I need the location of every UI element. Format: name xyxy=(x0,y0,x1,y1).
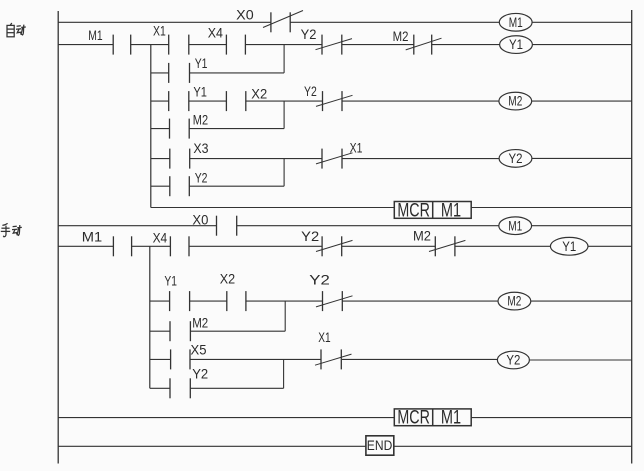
wire xyxy=(189,44,226,46)
wire xyxy=(290,21,499,23)
contact X3 xyxy=(170,149,190,169)
svg-text:M2: M2 xyxy=(508,94,522,109)
svg-text:X0: X0 xyxy=(192,213,208,228)
coil Y2 xyxy=(499,150,532,168)
wire xyxy=(342,44,414,46)
svg-text:M2: M2 xyxy=(413,228,431,243)
wire xyxy=(532,100,632,102)
coil M2_h xyxy=(498,292,531,310)
wire xyxy=(245,44,322,46)
wire xyxy=(588,245,632,247)
svg-text:X0: X0 xyxy=(236,7,254,22)
svg-text:Y1: Y1 xyxy=(193,85,207,100)
contact Y1_c xyxy=(169,91,189,111)
wire (Y2 branch rejoin) xyxy=(283,159,285,187)
svg-text:Y1: Y1 xyxy=(509,37,523,52)
wire (M2 branch stub) xyxy=(151,128,170,130)
contact Y2_b (NC) xyxy=(316,35,353,55)
contact Y2_h (NC) xyxy=(316,291,353,311)
wire xyxy=(58,21,271,23)
contact X2_h xyxy=(227,291,246,311)
wire xyxy=(531,300,632,302)
wire (Y2 branch stub) xyxy=(151,185,170,187)
coil M1_f xyxy=(499,217,532,235)
svg-text:X5: X5 xyxy=(191,342,207,357)
svg-text:Y2: Y2 xyxy=(509,151,523,166)
wire xyxy=(532,21,632,23)
wire xyxy=(532,225,632,227)
wire (Y2 branch stub, sec 2) xyxy=(150,387,170,389)
svg-text:Y2: Y2 xyxy=(301,229,319,244)
contact M2_b (NC) xyxy=(406,35,442,55)
wire (X5 rung stub) xyxy=(150,358,171,360)
svg-text:M2: M2 xyxy=(193,113,208,128)
svg-text:X1: X1 xyxy=(153,24,166,39)
END box xyxy=(366,436,394,455)
svg-text:M1: M1 xyxy=(88,28,102,43)
wire (MCR rung out) xyxy=(471,207,632,209)
wire xyxy=(237,225,499,227)
branch rail (section 2) xyxy=(149,246,151,388)
svg-text:Y2: Y2 xyxy=(304,84,317,99)
svg-text:M2: M2 xyxy=(507,294,521,309)
wire (Y2 branch, sec 2) xyxy=(190,387,283,389)
wire xyxy=(132,245,171,247)
svg-text:MCR: MCR xyxy=(397,200,430,221)
wire (M2 branch) xyxy=(189,128,284,130)
svg-text:X1: X1 xyxy=(350,141,363,156)
svg-text:X4: X4 xyxy=(153,230,168,245)
wire xyxy=(246,300,323,302)
wire xyxy=(131,44,169,46)
wire (M2 branch rejoin, sec 2) xyxy=(284,301,286,331)
contact X1_x5 (NC) xyxy=(315,349,352,369)
wire xyxy=(58,245,113,247)
contact Y2_p2 xyxy=(170,378,190,398)
contact X0_f xyxy=(217,216,237,236)
svg-text:X2: X2 xyxy=(220,272,235,287)
svg-text:M2: M2 xyxy=(393,29,409,44)
wire xyxy=(455,245,551,247)
wire (rung C stub) xyxy=(151,100,169,102)
coil M2 xyxy=(499,92,532,110)
wire xyxy=(58,44,113,46)
coil M1 xyxy=(499,13,532,31)
wire (Y1 branch) xyxy=(190,72,285,74)
svg-text:M1: M1 xyxy=(508,218,522,233)
contact X1 xyxy=(169,35,189,55)
wire (Y2 branch) xyxy=(189,185,284,187)
svg-text:Y1: Y1 xyxy=(562,239,576,254)
coil Y2_x5 xyxy=(497,351,529,369)
contact Y1_h xyxy=(170,291,190,311)
wire (Y1 branch rejoin) xyxy=(283,45,285,73)
wire (rung D stub) xyxy=(151,158,170,160)
wire (M2 branch rejoin) xyxy=(283,101,285,129)
wire (M2 branch stub, sec 2) xyxy=(150,330,170,332)
contact M2_p2 xyxy=(170,321,190,341)
wire xyxy=(58,225,216,227)
wire xyxy=(342,100,499,102)
svg-text:Y2: Y2 xyxy=(309,272,330,287)
svg-text:Y2: Y2 xyxy=(506,353,520,368)
contact M2_p xyxy=(170,119,190,139)
svg-text:X1: X1 xyxy=(318,330,330,345)
contact X4_g xyxy=(170,236,189,256)
contact X0 (NC) xyxy=(263,11,303,33)
wire (MCR rung 2 out) xyxy=(471,417,632,419)
svg-text:M2: M2 xyxy=(192,315,208,330)
wire (MCR rung 2) xyxy=(58,417,394,419)
wire xyxy=(532,157,632,159)
svg-text:X3: X3 xyxy=(193,141,208,156)
wire xyxy=(532,44,631,46)
wire (END rung out) xyxy=(394,445,632,447)
section label 手动 (manual) xyxy=(1,223,22,236)
wire xyxy=(529,359,631,361)
left power rail xyxy=(57,11,59,464)
coil Y1 xyxy=(500,36,533,54)
contact M2_g (NC) xyxy=(429,236,465,256)
wire xyxy=(342,245,436,247)
wire (Y2 branch rejoin, sec 2) xyxy=(283,359,285,388)
contact X1_d (NC) xyxy=(316,149,353,169)
wire xyxy=(342,358,497,360)
contact Y2_c (NC) xyxy=(316,91,353,111)
wire xyxy=(432,44,500,46)
svg-text:Y1: Y1 xyxy=(164,273,177,288)
wire xyxy=(190,158,322,160)
right power rail xyxy=(631,10,633,464)
svg-text:Y2: Y2 xyxy=(195,171,208,186)
contact X4 xyxy=(226,35,245,55)
wire xyxy=(190,358,321,360)
contact M1 xyxy=(113,35,131,55)
contact Y2_p xyxy=(170,176,190,196)
contact X2 xyxy=(226,91,245,111)
contact Y2_g (NC) xyxy=(316,236,353,256)
wire (M2 branch, sec 2) xyxy=(190,330,285,332)
svg-text:M1: M1 xyxy=(441,408,461,429)
wire xyxy=(190,300,227,302)
wire xyxy=(189,245,322,247)
svg-text:M1: M1 xyxy=(509,15,523,30)
contact X5 xyxy=(171,349,190,369)
wire xyxy=(246,100,323,102)
svg-text:Y2: Y2 xyxy=(192,367,208,382)
contact Y1_p xyxy=(169,63,190,83)
MCR M1 box (section 2) xyxy=(394,408,471,429)
svg-text:M1: M1 xyxy=(82,229,102,244)
svg-text:Y1: Y1 xyxy=(195,56,208,71)
svg-text:END: END xyxy=(367,437,393,453)
wire (Y1 branch stub) xyxy=(151,72,169,74)
wire (END rung) xyxy=(58,445,366,447)
wire xyxy=(342,300,498,302)
svg-text:MCR: MCR xyxy=(397,408,430,429)
MCR M1 box (section 1) xyxy=(394,200,471,221)
section label 自动 (auto) xyxy=(7,23,26,37)
coil Y1_g xyxy=(550,237,588,255)
svg-text:M1: M1 xyxy=(441,200,461,221)
wire (rung H stub) xyxy=(150,300,170,302)
branch rail (section 1) xyxy=(150,45,152,208)
wire xyxy=(342,158,499,160)
svg-text:X4: X4 xyxy=(208,25,223,40)
wire (MCR rung) xyxy=(151,207,394,209)
svg-text:X2: X2 xyxy=(251,87,267,102)
contact M1_g xyxy=(113,236,131,256)
wire xyxy=(189,100,227,102)
svg-text:Y2: Y2 xyxy=(301,27,317,42)
